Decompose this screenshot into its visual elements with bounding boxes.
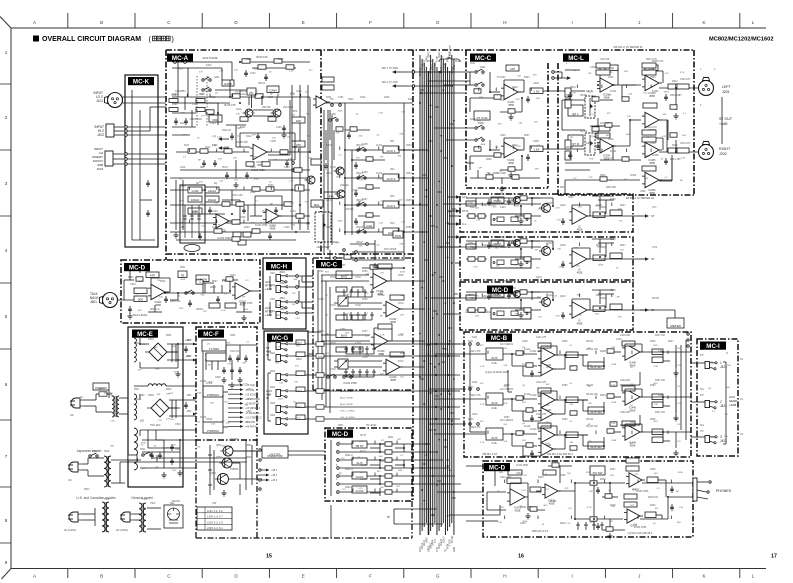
contact ch on b <box>339 104 342 107</box>
svg-text:R156: R156 <box>406 227 412 229</box>
ruler letters bottom <box>33 574 755 579</box>
resistor tb r2 <box>226 277 233 281</box>
svg-text:AUX 2: AUX 2 <box>387 177 396 181</box>
resistor MC-B row3 rr1 <box>516 431 523 435</box>
resistor mcc top r7 <box>486 175 493 179</box>
label MC-D bus <box>487 286 513 294</box>
fuse box power <box>128 455 137 460</box>
svg-text:47P: 47P <box>336 133 340 135</box>
svg-text:R237: R237 <box>620 245 626 247</box>
wire mcb3 mid <box>555 434 588 436</box>
svg-text:I: I <box>571 20 572 25</box>
junction dots MC-C top <box>489 91 523 157</box>
svg-text:240V 2-4, 5-1: 240V 2-4, 5-1 <box>207 526 223 530</box>
svg-text:4558: 4558 <box>180 279 186 281</box>
svg-text:56K: 56K <box>379 456 383 458</box>
junction strip A t <box>531 197 533 199</box>
svg-text:R331: R331 <box>560 187 566 189</box>
RC ladder MC-C mid 4 <box>344 369 376 377</box>
contacts phantom column <box>259 449 261 490</box>
wires MC-B row 3 mesh <box>503 432 676 456</box>
svg-text:47K: 47K <box>546 367 550 369</box>
wire strip B out <box>587 258 637 260</box>
transformer T503 <box>139 503 146 532</box>
fader master R <box>585 133 595 155</box>
svg-text:R457 150: R457 150 <box>655 380 666 382</box>
connector J352 aux return jack <box>276 312 288 320</box>
svg-text:G: G <box>436 20 440 25</box>
svg-text:C-L: C-L <box>462 222 467 226</box>
svg-text:S501: S501 <box>140 449 146 451</box>
op-amp IC442b <box>538 407 556 420</box>
svg-text:47P: 47P <box>166 419 170 421</box>
svg-text:AC (240V): AC (240V) <box>116 528 128 532</box>
op-amp IC441b <box>538 362 556 375</box>
box bus amp label <box>336 271 352 279</box>
svg-text:NP: NP <box>166 448 170 450</box>
svg-text:R703: R703 <box>330 342 336 345</box>
svg-text:10K(B): 10K(B) <box>586 143 593 145</box>
svg-text:47K: 47K <box>655 508 659 510</box>
switch cue select a <box>475 69 484 73</box>
resistor MC-A r20 <box>280 150 288 154</box>
bracket aux send <box>723 362 726 444</box>
svg-text:AUX2: AUX2 <box>376 172 383 175</box>
feedback boxes MC-C mid stack <box>378 264 404 357</box>
label MC-G <box>267 334 293 342</box>
dotted divider phones <box>593 475 595 530</box>
capacitor eq c2 <box>242 207 246 214</box>
connector AC inlet 3 <box>68 512 82 522</box>
svg-text:4558: 4558 <box>577 270 583 274</box>
op-amp IC201a <box>501 84 521 99</box>
svg-text:PH SW: PH SW <box>593 471 603 475</box>
svg-text:NP: NP <box>380 315 384 317</box>
svg-text:S102 PHASE: S102 PHASE <box>202 56 218 60</box>
resistor R121 <box>292 141 305 147</box>
svg-text:10U: 10U <box>170 419 174 421</box>
svg-text:10K: 10K <box>572 93 576 95</box>
wires MC-H to MC-C mid <box>306 276 313 313</box>
svg-text:IC441 4558: IC441 4558 <box>530 350 543 353</box>
fader channel <box>315 212 331 242</box>
svg-text:P502: P502 <box>84 489 90 491</box>
wires bus to MC-C <box>434 72 474 140</box>
svg-text:R101: R101 <box>172 94 178 96</box>
svg-text:U.S. and Canadian models: U.S. and Canadian models <box>76 496 116 500</box>
wire tb out <box>250 290 259 292</box>
svg-text:C201: C201 <box>500 77 506 79</box>
svg-text:MS MC-2 RL MR 45.4: MS MC-2 RL MR 45.4 <box>547 452 573 456</box>
svg-text:C231: C231 <box>468 243 474 245</box>
svg-text:J351: J351 <box>270 299 276 301</box>
resistor MC-A r12 <box>255 94 263 98</box>
svg-text:R802: R802 <box>296 358 302 361</box>
block MC-D headphone border <box>483 461 693 537</box>
feedback IC431 <box>510 483 528 497</box>
svg-text:Japanese model: Japanese model <box>77 449 102 453</box>
label MC-F <box>198 330 224 338</box>
svg-text:2.2K: 2.2K <box>289 181 294 183</box>
resistor strip A rr1 <box>468 214 475 218</box>
svg-text:4558: 4558 <box>515 508 521 512</box>
junction dots MC-B row 2 <box>511 396 664 412</box>
switch cue select b <box>475 82 484 86</box>
op-amp IC601 <box>148 284 168 299</box>
op-amp IC306 <box>642 172 662 187</box>
svg-text:R111: R111 <box>180 123 186 125</box>
bus signal labels top <box>419 51 456 74</box>
svg-text:R703: R703 <box>318 331 324 333</box>
capacitor strip B c1 <box>507 241 511 248</box>
svg-text:TIP: TIP <box>700 431 704 433</box>
svg-text:NP: NP <box>570 137 574 139</box>
svg-text:TAP: TAP <box>212 502 217 505</box>
box TB <box>178 271 187 278</box>
svg-text:R233: R233 <box>508 243 514 245</box>
vertical bundle MC-C mid left <box>318 270 330 390</box>
resistor mcb1 r3 <box>652 357 663 363</box>
svg-text:C314 NP: C314 NP <box>600 123 610 125</box>
svg-text:4558: 4558 <box>649 191 655 195</box>
svg-text:220V 2-3, 1-8: 220V 2-3, 1-8 <box>207 520 223 524</box>
ground MC-B row2 <box>673 415 678 421</box>
arrow eq in 2 <box>218 146 229 150</box>
resistors MC-G <box>296 340 305 420</box>
wires MC-E outputs <box>140 344 196 468</box>
capacitor MC-E c4 <box>184 402 188 409</box>
wire J103 sleeve <box>127 163 166 165</box>
resistor MC-B row2 rr2 <box>526 408 533 412</box>
label ST 4dB IN <box>266 346 271 357</box>
wire bus top h2 <box>421 92 466 94</box>
svg-text:C305: C305 <box>650 77 656 79</box>
svg-text:10K: 10K <box>236 224 240 226</box>
svg-text:10K: 10K <box>503 403 507 405</box>
svg-text:C601: C601 <box>130 283 136 286</box>
svg-text:J806: J806 <box>270 415 276 417</box>
oval LOW BOOST <box>184 245 200 252</box>
svg-text:4558: 4558 <box>598 265 604 267</box>
svg-text:J804: J804 <box>270 387 276 389</box>
svg-text:4.7K: 4.7K <box>378 179 383 181</box>
svg-text:+15 ECHO: +15 ECHO <box>245 393 257 396</box>
svg-text:C208: C208 <box>533 140 539 143</box>
wires power mesh <box>109 390 157 483</box>
svg-text:22K: 22K <box>138 310 142 312</box>
contact mch 1 <box>296 275 299 278</box>
svg-text:MC-F: MC-F <box>203 331 219 338</box>
svg-text:4558: 4558 <box>182 135 188 137</box>
resistor mcb3 r1 <box>566 432 578 438</box>
svg-text:26V: 26V <box>187 354 192 358</box>
op-amp IC434 <box>624 509 643 523</box>
svg-text:AUX: AUX <box>491 436 497 440</box>
label 2 J421 <box>720 400 727 408</box>
svg-text:R160: R160 <box>408 99 414 101</box>
resistor MC-L r8 <box>670 133 677 137</box>
resistor EQ low <box>188 187 202 193</box>
input contacts MC-L <box>552 71 555 80</box>
resistor MC-L r4 <box>622 97 629 101</box>
arrow to MC-K phantom <box>392 70 406 74</box>
resistor MC-A eq r3 <box>252 187 260 191</box>
transistor Q104 buffer <box>335 190 346 198</box>
svg-text:R702: R702 <box>318 299 324 301</box>
wire J102 sleeve <box>127 134 166 136</box>
block MC-L border box <box>558 50 694 195</box>
op-amp IC305 <box>642 142 662 157</box>
svg-text:RB MC-2 ST: RB MC-2 ST <box>483 452 498 456</box>
svg-text:10K: 10K <box>308 158 312 160</box>
svg-text:MS MC-C VU METER IN: MS MC-C VU METER IN <box>614 45 643 49</box>
svg-text:CUE: CUE <box>366 224 372 228</box>
phones feedback boxes <box>508 458 639 499</box>
wires MC-L lower taps <box>565 163 600 170</box>
capacitor MC-A c5 <box>282 125 286 132</box>
wires talkback more <box>130 266 214 312</box>
svg-text:56K: 56K <box>495 248 499 250</box>
svg-text:AUX SEND2: AUX SEND2 <box>500 388 514 391</box>
svg-text:47P: 47P <box>380 373 384 375</box>
svg-text:10U: 10U <box>643 93 647 95</box>
box TB assign AUX <box>352 458 367 465</box>
svg-text:R322: R322 <box>672 145 678 147</box>
svg-text:2.2K: 2.2K <box>556 220 561 222</box>
svg-text:R152: R152 <box>384 97 390 99</box>
svg-text:4558: 4558 <box>254 69 260 71</box>
svg-text:2.2K: 2.2K <box>571 115 576 117</box>
capacitor strip C c2 <box>561 312 565 319</box>
arrow bus exit 1 <box>447 195 468 199</box>
svg-text:10U: 10U <box>234 180 238 182</box>
arrow bus exit 4 <box>447 235 467 239</box>
wire cue sel <box>469 72 471 85</box>
svg-text:AUX SD: AUX SD <box>590 365 602 369</box>
svg-text:4558: 4558 <box>278 399 284 401</box>
svg-text:LT815GV: LT815GV <box>207 393 220 397</box>
wire pad link <box>215 89 248 91</box>
wires MC-A right column <box>292 85 308 230</box>
box AUX SEND2 CUE <box>486 393 503 405</box>
contacts meter switch <box>687 333 689 347</box>
resistor MC-A r19 <box>262 162 270 166</box>
wires fader strip top <box>321 103 413 140</box>
wire send row 2 out <box>399 177 428 179</box>
RC ladder MC-C mid 2 <box>342 312 374 320</box>
svg-text:S601-3: S601-3 <box>345 468 353 471</box>
svg-text:56K: 56K <box>227 343 231 345</box>
svg-text:56K: 56K <box>546 422 550 424</box>
svg-text:10K: 10K <box>611 506 615 508</box>
svg-text:AUX3: AUX3 <box>326 199 333 202</box>
svg-text:+48 2: +48 2 <box>271 474 278 477</box>
capacitor strip C ct1 <box>487 293 491 300</box>
wires MC-A top feed <box>172 97 230 103</box>
svg-text:10K: 10K <box>401 178 405 180</box>
junction bus b <box>451 85 453 87</box>
resistor R601 <box>134 288 147 294</box>
svg-text:4558: 4558 <box>577 321 583 325</box>
connector sub in jack AUX2 <box>276 390 288 398</box>
svg-text:C433: C433 <box>576 457 582 459</box>
svg-text:MC-A: MC-A <box>172 55 189 62</box>
box strip C peak <box>491 291 504 297</box>
svg-text:S441: S441 <box>472 337 478 339</box>
svg-text:22K: 22K <box>290 93 294 95</box>
arrow strip C out <box>637 308 655 312</box>
svg-text:2.2K: 2.2K <box>171 445 176 447</box>
svg-text:TIP: TIP <box>700 355 704 357</box>
svg-text:R441 47K: R441 47K <box>470 350 481 353</box>
box PHANTOM MASTER <box>262 446 288 458</box>
regulator IC502 <box>203 386 223 397</box>
junction dots MC-G rows <box>435 343 449 420</box>
capacitor MC-L c2 <box>568 152 572 159</box>
vertical jog bundle MC-C bottom <box>318 390 330 413</box>
svg-text:10U: 10U <box>654 473 658 475</box>
svg-text:47K: 47K <box>110 396 114 398</box>
contact mch 2 <box>296 286 299 289</box>
label AUX RTN1 <box>265 280 273 291</box>
capacitor C201 <box>506 65 519 71</box>
EQ inner caps ladder <box>183 205 201 238</box>
transistor strip A in <box>539 204 551 213</box>
resistor MC-L r6 <box>600 177 607 181</box>
svg-text:IC442: IC442 <box>524 394 531 396</box>
ground MC-A 2 <box>281 132 286 138</box>
svg-text:130V 1-4, 2-7: 130V 1-4, 2-7 <box>207 515 223 519</box>
svg-text:SOLO: SOLO <box>443 536 445 543</box>
resistor strip C r3 <box>593 306 605 312</box>
svg-text:4558: 4558 <box>338 221 344 223</box>
svg-text:TB: TB <box>386 515 390 519</box>
block MC-K border <box>125 75 158 247</box>
svg-text:56K: 56K <box>400 134 404 136</box>
svg-text:R153: R153 <box>406 145 412 147</box>
resistor R324 <box>352 315 363 320</box>
capacitor MC-B row3 c1 <box>530 450 534 457</box>
svg-text:R455: R455 <box>562 385 568 387</box>
resistor assign r3 <box>385 458 392 462</box>
capacitor MC-A c4 <box>256 133 260 140</box>
svg-text:EQ: EQ <box>214 183 218 185</box>
svg-text:47P: 47P <box>336 243 340 245</box>
strip block MC-D (solo bus amp) <box>460 282 633 330</box>
svg-text:R314 4.7K: R314 4.7K <box>646 127 657 129</box>
capacitor out L box <box>677 84 689 89</box>
svg-text:J101: J101 <box>96 99 103 103</box>
bracket TB dbmol <box>394 509 415 524</box>
capacitor MC-F c3 <box>236 355 240 362</box>
ground fader 1 <box>323 163 328 169</box>
connector J101 input XLR <box>105 93 123 108</box>
block MC-F border <box>196 327 257 440</box>
svg-text:22K: 22K <box>500 507 504 509</box>
svg-text:R435: R435 <box>538 477 544 479</box>
svg-text:J301: J301 <box>270 273 276 275</box>
voltage selector table <box>197 507 232 530</box>
resistor phones rr5 <box>590 481 597 485</box>
svg-text:AUX SD: AUX SD <box>590 445 602 449</box>
svg-text:R707: R707 <box>362 331 368 333</box>
svg-text:NP: NP <box>293 293 297 295</box>
svg-text:4558: 4558 <box>338 111 344 113</box>
svg-text:R136: R136 <box>262 211 268 213</box>
svg-text:C122: C122 <box>250 192 256 194</box>
svg-text:2SC1400: 2SC1400 <box>283 106 294 109</box>
svg-text:C120: C120 <box>284 167 290 169</box>
svg-text:10U: 10U <box>588 403 592 405</box>
wires MC-F mesh <box>226 345 240 380</box>
svg-text:R604: R604 <box>210 286 216 289</box>
wire top rail MC-A <box>230 96 310 98</box>
svg-text:AUX 3: AUX 3 <box>387 204 396 208</box>
wire aux send 1 <box>691 362 705 364</box>
transistor strip A q2 <box>511 197 521 204</box>
svg-text:VR441: VR441 <box>586 341 594 343</box>
resistor MC-L r7 <box>670 105 677 109</box>
svg-text:H: H <box>503 574 506 579</box>
transformer T501 <box>112 396 119 417</box>
ground MC-C 1 <box>508 114 513 120</box>
resistor strip B rr1 <box>468 257 475 261</box>
ground MC-A 1 <box>233 182 238 188</box>
svg-text:VR4: VR4 <box>390 223 395 225</box>
wire J101 hot <box>123 96 167 98</box>
connector AC inlet 2 <box>68 462 82 472</box>
svg-text:16: 16 <box>518 554 524 560</box>
capacitor fader c2 <box>354 162 358 169</box>
resistor R325 <box>336 347 347 352</box>
svg-text:R238: R238 <box>610 239 616 241</box>
bridge rectifier D502 <box>147 399 173 417</box>
op-amp IC443a <box>538 427 558 442</box>
resistor strip A r4 <box>610 210 622 216</box>
op-amp IC102b <box>263 209 282 223</box>
svg-text:ST-L: ST-L <box>462 195 468 199</box>
ground MC-F 2 <box>221 377 226 383</box>
op-amp IC102a <box>213 214 232 228</box>
svg-text:22K: 22K <box>172 346 176 348</box>
box AUX SEND3 <box>588 442 604 449</box>
svg-text:VR302: VR302 <box>580 131 588 133</box>
wires MC-A mid rail <box>172 97 310 152</box>
wires phantom <box>229 451 326 479</box>
wires MC-B right column <box>676 340 686 440</box>
transformer T502 <box>104 456 111 487</box>
svg-text:C110: C110 <box>212 145 218 147</box>
svg-text:AC: AC <box>80 396 84 399</box>
svg-text:AUX SEND3: AUX SEND3 <box>500 419 514 422</box>
svg-text:NP: NP <box>588 73 592 75</box>
feedback MC-C mid <box>373 268 392 341</box>
junction mca top <box>239 61 241 63</box>
svg-text:4.7K: 4.7K <box>216 225 221 227</box>
junction strip B t <box>531 240 533 242</box>
svg-text:R228: R228 <box>610 199 616 201</box>
svg-text:GAIN: GAIN <box>269 88 276 92</box>
switch gang dashed links MC-A <box>197 76 207 126</box>
svg-text:C448 22K: C448 22K <box>620 335 631 337</box>
resistor phones rr2 <box>552 463 559 467</box>
svg-text:R603 10K: R603 10K <box>170 300 181 303</box>
svg-text:TIP: TIP <box>700 395 704 397</box>
svg-text:TEL -10dBm 600: TEL -10dBm 600 <box>486 171 506 175</box>
wires fader to bus <box>399 103 425 260</box>
resistor R310 <box>668 84 678 89</box>
op-amp IC307 bottom stack <box>642 166 656 171</box>
